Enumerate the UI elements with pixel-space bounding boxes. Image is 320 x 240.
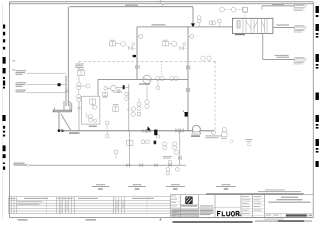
dwg label under table 1 (18, 219, 28, 221)
label above connector line (272, 4, 284, 5)
drain circle below loop (156, 86, 160, 90)
junction square on leader 2 (58, 83, 61, 86)
continuation note stack 2 (128, 184, 146, 190)
branch drop B1 (128, 131, 130, 165)
note block 1 (16, 70, 27, 75)
FLUOR wordmark (199, 207, 242, 209)
leader 2 (26, 84, 66, 86)
tank nozzle stubs (64, 101, 72, 110)
wire drop V2 (187, 27, 189, 131)
dwg label under table 2 (86, 219, 97, 221)
signal drop to pair A1 (161, 61, 163, 76)
left margin zone letters (13, 60, 15, 62)
circle with stem under ML1 (106, 134, 110, 138)
small text right of risers (75, 64, 84, 68)
branch drop B2 (179, 131, 181, 165)
lower header line LL (30, 164, 186, 166)
bottom center tick (159, 218, 161, 221)
disclaimer paragraph (181, 203, 199, 205)
wire main inlet line to vessel (137, 26, 232, 28)
gauges right of drop (125, 92, 136, 116)
right margin zone marks (316, 6, 319, 167)
off-page connector C2 (294, 26, 307, 33)
instrument column below filter (137, 84, 149, 116)
junction dot at drain (58, 129, 61, 132)
package box E-1 (82, 96, 100, 124)
note bottom-left (14, 163, 27, 166)
side pipe at x79 (78, 102, 80, 131)
square instrument mid (113, 107, 119, 112)
stacked pairs (163, 142, 177, 150)
table 2 header smudge (132, 198, 154, 199)
company name under logo (181, 205, 198, 206)
filter label (139, 83, 150, 84)
cluster: PSV loop (104, 85, 129, 93)
property note above title block (258, 191, 301, 192)
single note line right (265, 189, 285, 190)
wire top header line (66, 7, 193, 106)
continuation note stack 1 (92, 184, 110, 190)
small note cluster mid-low (163, 156, 172, 159)
top center tick (160, 1, 162, 4)
revision table block 1 (9, 197, 113, 214)
gate valve on V2 upper (186, 66, 190, 70)
flow arrow on main line (62, 129, 66, 132)
approvals row lines (241, 198, 265, 215)
tank cone diagonal (61, 114, 71, 130)
tank left leg (58, 112, 60, 131)
wire recycle loop line A (98, 78, 188, 80)
vessel drain to connector C3 (263, 33, 295, 59)
leader 1 (26, 72, 66, 74)
tank nozzle tick left (54, 108, 56, 111)
vessel label (235, 34, 245, 35)
vessel internals (237, 18, 267, 33)
square pair on B1 top (127, 140, 133, 145)
wire drop x128.8 (128, 84, 130, 131)
box internals: square instrument (90, 99, 96, 107)
instrument group G1: square PDIT (110, 39, 115, 42)
box label (89, 126, 97, 127)
left margin zone marks (2, 25, 5, 170)
misc labels lower right area (206, 135, 222, 136)
wire drop V1 (136, 27, 138, 79)
shared square instrument (78, 68, 85, 71)
instrument bump on V2 (190, 35, 194, 39)
tank K.O. drum top (53, 110, 71, 112)
bottom margin strip black (173, 221, 253, 223)
line label 8"-FL-1003 (125, 5, 138, 6)
vessel outlet line to connector C2 (273, 27, 295, 29)
vessel top connector line L2 (262, 5, 295, 7)
square instrument below PSV (103, 92, 108, 96)
table 1 slashes (60, 201, 68, 214)
sheet margin line left (2, 3, 4, 218)
black mark lower (154, 141, 157, 145)
note block 3 (16, 90, 27, 93)
off-page connector C3 (275, 55, 307, 64)
signal dashed line D1 (79, 60, 217, 62)
table 2 slashes (116, 201, 124, 211)
signal dashed drop D2 (214, 61, 216, 131)
actuator black bar (123, 85, 125, 89)
instrument row above vessel (220, 7, 248, 18)
title block outer (170, 195, 313, 218)
wire loop left drop (97, 79, 99, 96)
check valve (black) on drop (191, 23, 195, 27)
fluor logo shield (185, 196, 193, 204)
instrument pair on D1 (201, 56, 205, 60)
valves on LL (127, 164, 130, 167)
instrument with seal at pump discharge (212, 130, 216, 134)
scale row (265, 212, 314, 214)
approvals column labels (242, 196, 262, 214)
control valve (black) on V2 (185, 112, 188, 117)
box internals: gauge circles (86, 105, 96, 122)
revision table block 2 (113, 197, 170, 214)
leader 3 (26, 92, 66, 94)
note block 2 (16, 82, 27, 87)
gate valve on V2 (186, 88, 190, 92)
pump P-301 (192, 125, 202, 134)
instrument pair A1 (156, 76, 160, 80)
vessel ME-302 filter separator (232, 18, 273, 33)
table 1 header smudge (9, 198, 98, 199)
table 1 row text (17, 201, 42, 205)
black control valve mid upper (154, 130, 157, 136)
instrument pair A2 (170, 76, 174, 80)
equipment label 208-U-302 (69, 132, 80, 133)
bottom margin text right (255, 220, 277, 221)
off-page connector C1 (294, 4, 307, 11)
title block left rev rows (170, 198, 180, 215)
gauge pair on ML1 (105, 121, 109, 125)
valve on B2 (174, 150, 178, 154)
check valve arrow on ML1 left (147, 126, 151, 130)
gate valves left of pump (176, 129, 179, 133)
continuation note stack 3 (166, 184, 185, 190)
filter F-1 on loop (143, 75, 151, 83)
line label 10"-FL-1001 (152, 24, 166, 25)
valve on V1 below signal line (136, 65, 140, 69)
bottom margin text mid-right of title (264, 219, 284, 220)
instrument pairs left of row (197, 16, 221, 27)
circle with tail left (114, 150, 118, 154)
project title lines (269, 197, 311, 203)
instrument group G2: square PDIT (163, 39, 168, 42)
continuation note stack 4 (216, 184, 236, 190)
riser ticks (65, 90, 69, 92)
circles right (141, 140, 145, 144)
lower cluster circles left of check (143, 129, 160, 138)
drains below LL (166, 168, 179, 176)
instrument circle+box right (222, 127, 227, 136)
instrument chain at x79: signal drop (78, 61, 80, 71)
main bottom process line ML1 (59, 130, 214, 132)
instrument bump on V1 (139, 35, 143, 39)
junction dot (133, 55, 136, 57)
